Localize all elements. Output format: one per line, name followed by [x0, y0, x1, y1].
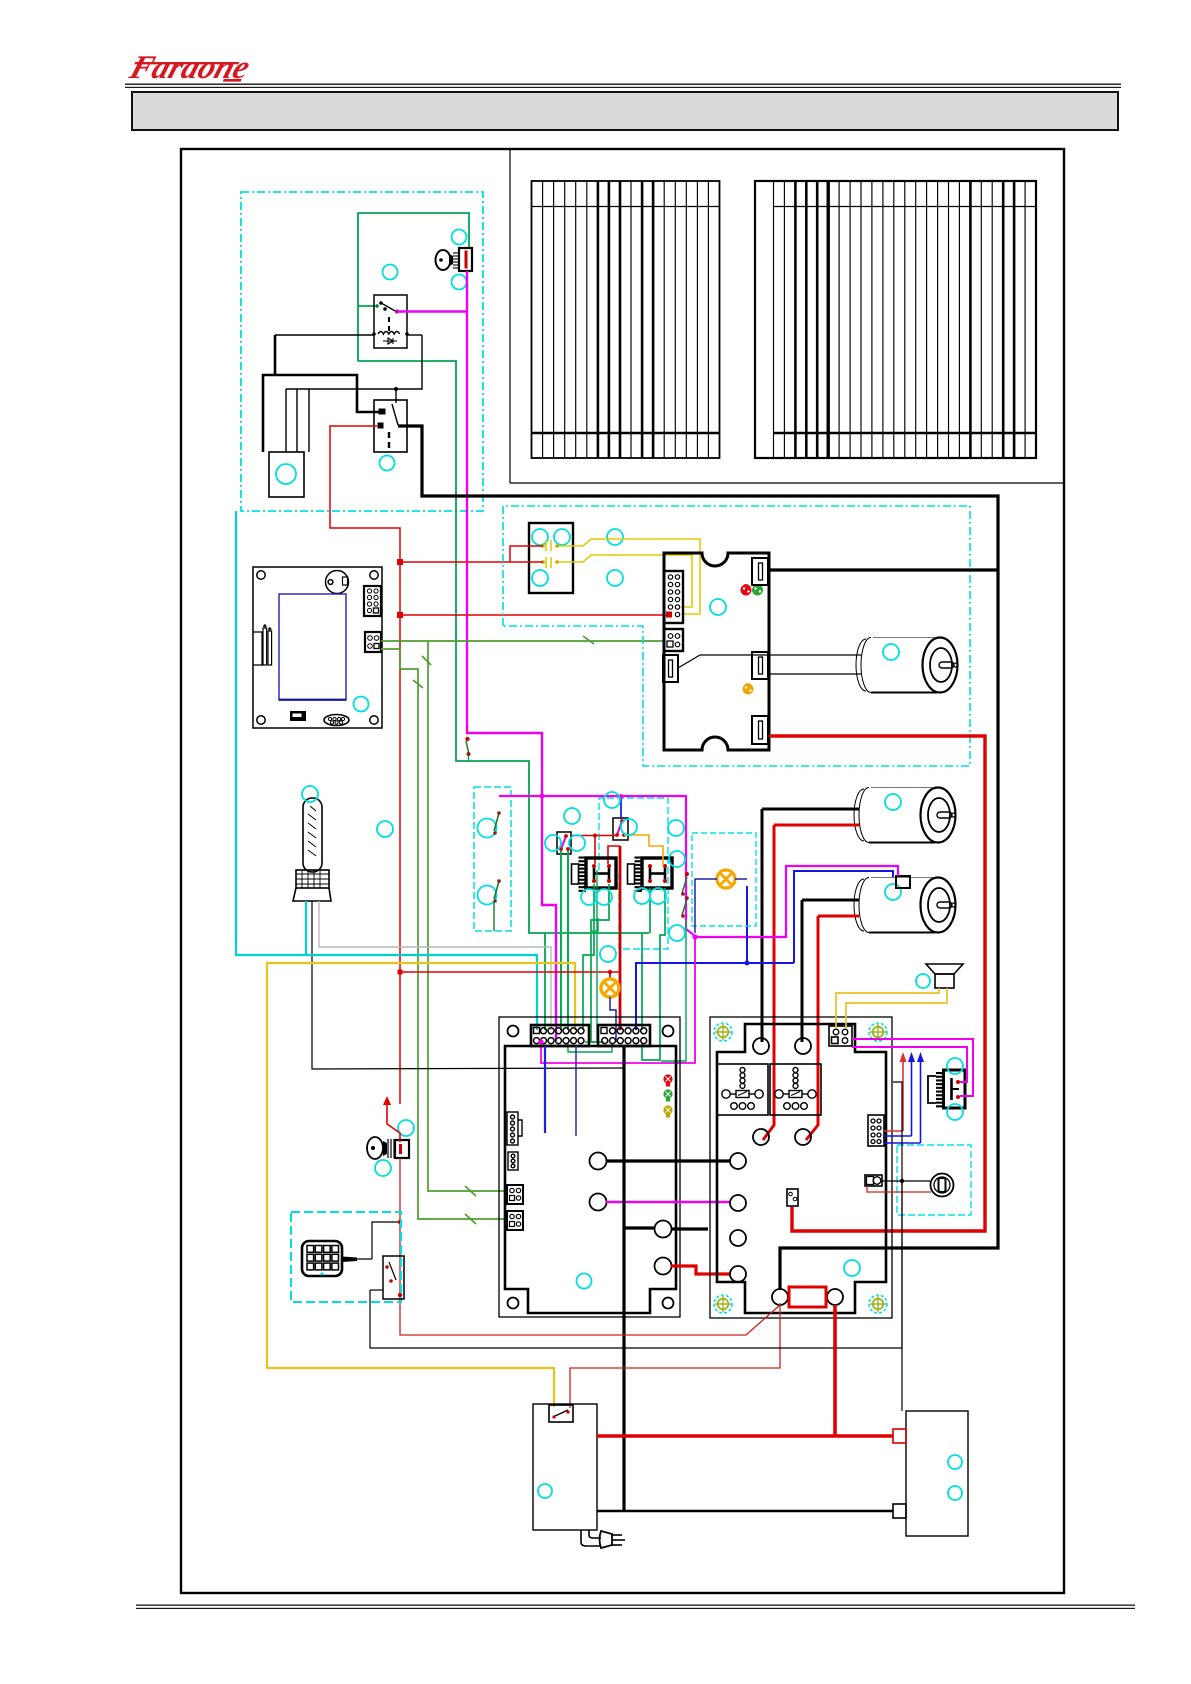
signal lamp HL2 — [692, 833, 756, 926]
DC jack — [931, 1174, 954, 1197]
blue stub to S4 — [620, 797, 622, 819]
A2 header X3 — [531, 1025, 589, 1046]
jumper block — [290, 711, 306, 721]
thick black U1 to bus — [768, 568, 998, 571]
interlock contact block S1 — [529, 523, 573, 593]
green net from key switch — [358, 213, 649, 1030]
jack sense component — [865, 1175, 882, 1186]
battery frame wiring — [263, 335, 422, 452]
main switch S2 — [374, 400, 407, 452]
board link wires A2-A3 — [606, 1159, 730, 1162]
joystick cables — [305, 901, 307, 955]
magenta pin dot — [538, 1039, 543, 1044]
M3 cables — [802, 899, 859, 902]
battery B1 — [269, 452, 304, 497]
A2 internal blue jumpers — [544, 1046, 546, 1133]
relay K2 on A3 — [717, 1064, 768, 1115]
A2 side connector 2x2 (b) — [507, 1211, 523, 1230]
ladder section L2 — [755, 181, 1036, 458]
keypad ground wire — [370, 1289, 383, 1291]
micro switch S3 — [557, 832, 571, 854]
motor controller U1 — [664, 553, 769, 750]
brake release switch S6 — [465, 737, 470, 762]
magenta wires X5 to XS1 — [852, 1039, 973, 1096]
battery charger U2 — [533, 1404, 597, 1530]
joystick SA1 — [293, 798, 331, 901]
conn J1 (2x4) on PCB — [364, 586, 381, 616]
blue wire M3 plug to A2 — [636, 871, 893, 1030]
micro switch S4 — [613, 818, 628, 840]
A3 top connector X5 — [829, 1026, 852, 1046]
control board A2 — [499, 1017, 680, 1317]
motor M3 — [854, 878, 956, 933]
green wire S3 contacts down to A2 — [561, 851, 568, 1030]
cyan enclosure around lift controller — [503, 506, 970, 766]
red sense line to charger — [570, 1303, 780, 1408]
red branch to S1 — [400, 546, 666, 615]
thick black feed bus from S2 — [398, 426, 998, 1290]
LCD window — [279, 594, 346, 700]
fuse F1 — [789, 1287, 826, 1307]
limit switches on magenta column — [682, 877, 687, 893]
teal returns into A2 — [568, 870, 612, 1052]
AC plug — [581, 1530, 625, 1548]
red feed from S2 down-left — [330, 426, 400, 1104]
red link wires S3-S4-H1 — [571, 836, 617, 865]
DB9 connector — [324, 715, 349, 726]
key switch test circles — [383, 230, 467, 290]
header double rule — [125, 84, 1121, 85]
U1 LEDs — [741, 584, 764, 694]
FFC connector left edge — [253, 625, 272, 666]
yellow harness — [267, 963, 575, 1407]
conn J2 (2x2) on PCB — [365, 632, 381, 652]
limit switch SQ2 — [478, 886, 497, 905]
U1 connector X1 (2x6) — [664, 571, 683, 623]
S1 contacts and yellow wires to controller U1 — [546, 539, 700, 614]
aux jack box (cyan dashed) — [897, 1145, 971, 1215]
green returns from valves — [583, 884, 665, 1060]
brake valve Y2 — [628, 857, 673, 892]
A2 header X4 — [598, 1025, 650, 1046]
charge socket XS1 — [928, 1070, 965, 1108]
buzzer/speaker HA1 — [926, 964, 963, 974]
frame partition — [509, 150, 511, 483]
orange wire S4 to Y2 — [624, 835, 663, 866]
red supply arrow — [383, 1096, 391, 1105]
emergency stop SB1 — [367, 1137, 409, 1159]
cyan enclosure box (upper platform unit) — [241, 192, 483, 511]
Faraone logo — [124, 50, 254, 86]
charger switch — [549, 1405, 573, 1422]
red main bus A3 to U1 — [769, 736, 985, 1231]
U1 edge connectors — [663, 558, 768, 744]
thin red to lamp/U-A2 — [400, 971, 620, 973]
display PCB A1 — [253, 567, 382, 728]
limit switch SQ1 — [478, 819, 497, 838]
brake valve Y1 — [572, 857, 617, 892]
red line below E-stop to fuse — [400, 1158, 780, 1335]
magenta distribution — [499, 796, 898, 937]
direction arrows — [884, 1052, 924, 1143]
cyan dashed box (left limit switches) — [474, 787, 511, 931]
keypad receiver relay K4 — [353, 1222, 404, 1299]
key switch S5 — [436, 248, 473, 271]
A2 side connector 4p — [508, 1152, 518, 1170]
A2 side connector 2x2 (a) — [507, 1185, 523, 1204]
battery GB1 — [906, 1411, 968, 1536]
yellow wires speaker to A3 — [836, 988, 947, 1028]
relay K1 — [374, 295, 407, 348]
A3 screw marks — [714, 1023, 732, 1041]
signal lamp HL1 — [609, 972, 611, 978]
ladder section L1 — [532, 181, 720, 458]
U1 connector X2 (2x2) — [664, 629, 683, 651]
remote keypad box — [291, 1212, 401, 1302]
2-pin connector on A3 — [787, 1189, 798, 1206]
magenta under-wire to lamp HL2 net — [541, 937, 695, 1063]
A2 status LEDs — [663, 1074, 672, 1117]
battery negative cable — [597, 1510, 893, 1513]
motor M2 — [854, 788, 955, 843]
A2 side connector 5p — [507, 1112, 522, 1145]
green control wires from PCB — [381, 636, 664, 1224]
A2 terminals — [590, 1153, 672, 1275]
keypad SA2 — [302, 1241, 342, 1276]
relay K3 on A3 — [770, 1064, 821, 1115]
A3 mid connector X6 — [868, 1115, 884, 1146]
scattered cyan test circles — [377, 792, 685, 962]
U1 to M1 wires — [678, 655, 861, 674]
main frame — [181, 149, 1064, 1593]
motor M1 — [856, 638, 958, 693]
cyan dashed box (valve cluster) — [599, 798, 668, 949]
relay board A3 — [710, 1017, 892, 1318]
battery positive cable — [597, 1434, 893, 1438]
M3 plug box — [896, 876, 910, 888]
gray title bar — [132, 92, 1118, 130]
magenta wire: key switch to relay K1 and down — [398, 271, 556, 1041]
black sense wire to battery — [901, 1181, 903, 1411]
cyan harness — [236, 511, 537, 1030]
A3 terminals — [730, 1038, 843, 1305]
footer double rule — [136, 1605, 1135, 1606]
M2 cables — [762, 808, 859, 811]
